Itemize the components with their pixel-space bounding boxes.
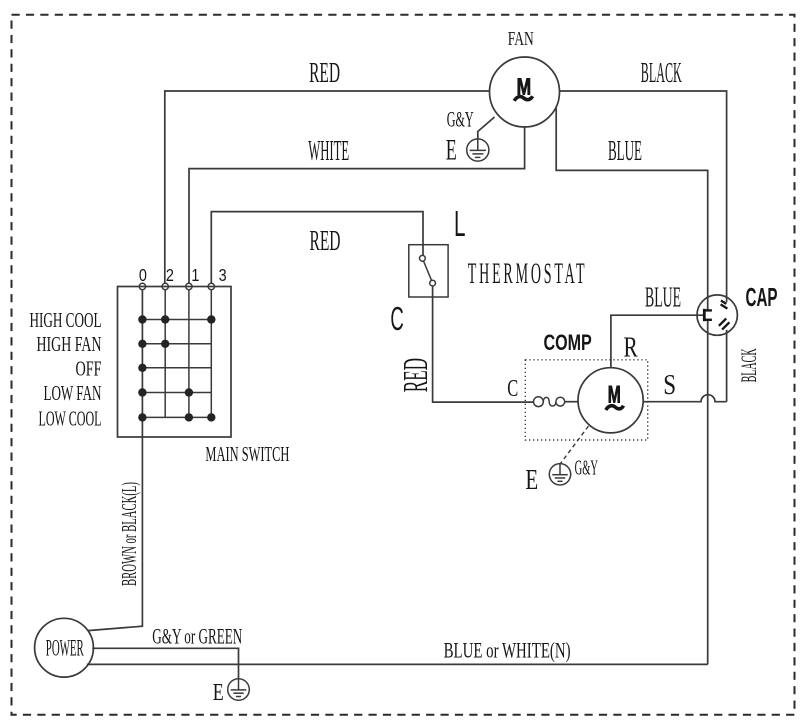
compressor motor circle — [578, 368, 643, 433]
svg-text:S: S — [663, 370, 676, 401]
switch row HIGH FAN — [142, 343, 211, 345]
svg-text:RED: RED — [309, 57, 340, 89]
main switch box — [118, 287, 232, 438]
svg-text:WHITE: WHITE — [308, 135, 349, 167]
switch row LOW FAN — [142, 392, 211, 394]
overload protector — [534, 397, 565, 407]
capacitor common plate — [703, 309, 712, 321]
wire overload to compressor — [565, 401, 578, 403]
svg-text:BLUE: BLUE — [645, 282, 681, 314]
svg-text:HIGH FAN: HIGH FAN — [37, 332, 102, 356]
svg-text:CAP: CAP — [746, 282, 778, 312]
svg-text:1: 1 — [191, 265, 199, 285]
svg-text:POWER: POWER — [46, 636, 84, 661]
thermostat blade — [424, 261, 432, 280]
svg-text:RED: RED — [310, 225, 341, 257]
wire WHITE: switch terminal 1 to fan — [189, 127, 525, 283]
ground (fan earth) — [467, 139, 489, 161]
switch row LOW COOL — [142, 416, 211, 418]
svg-text:BLACK: BLACK — [641, 57, 682, 89]
svg-text:HIGH COOL: HIGH COOL — [30, 308, 102, 332]
wire BLUE or WHITE(N) neutral — [87, 663, 708, 665]
ground (compressor earth) — [549, 464, 570, 485]
svg-text:E: E — [213, 680, 224, 706]
wire RED: switch terminal 2 to fan — [165, 91, 490, 283]
compressor tilde — [606, 406, 624, 410]
svg-text:BROWN or BLACK(L): BROWN or BLACK(L) — [117, 482, 141, 586]
wire BLUE: fan to capacitor common — [556, 108, 708, 310]
svg-text:L: L — [454, 203, 466, 244]
switch terminal 1 — [186, 283, 192, 289]
fan motor tilde — [514, 96, 532, 101]
wire BLACK: fan to capacitor — [560, 91, 727, 302]
thermostat box — [409, 245, 448, 297]
svg-text:COMP: COMP — [543, 330, 591, 355]
svg-text:BLACK: BLACK — [736, 348, 761, 382]
svg-text:E: E — [446, 134, 457, 167]
wire compressor earth (dashed) — [561, 426, 589, 464]
svg-text:LOW COOL: LOW COOL — [39, 407, 102, 431]
wire RED: thermostat to compressor C — [433, 286, 534, 402]
svg-text:0: 0 — [139, 265, 147, 285]
ground (power earth) — [228, 679, 250, 701]
switch terminal 0 — [139, 283, 145, 289]
capacitor plates (S terminal) — [719, 319, 730, 330]
thermostat contact L — [420, 255, 426, 261]
switch row OFF — [142, 367, 211, 369]
wire N: capacitor to neutral — [707, 320, 709, 664]
thermostat contact C — [430, 280, 436, 286]
switch column 2 — [164, 290, 166, 418]
svg-text:C: C — [390, 300, 403, 337]
svg-text:LOW FAN: LOW FAN — [44, 381, 102, 405]
switch column 0 wire to POWER — [88, 290, 143, 631]
switch terminal 3 — [208, 283, 214, 289]
svg-text:E: E — [525, 465, 538, 496]
svg-text:FAN: FAN — [508, 28, 534, 50]
switch column 3 — [210, 290, 212, 418]
svg-text:3: 3 — [219, 265, 227, 285]
svg-text:2: 2 — [166, 265, 174, 285]
wire capacitor to S — [726, 330, 728, 402]
svg-text:THERMOSTAT: THERMOSTAT — [468, 257, 588, 290]
svg-text:RED: RED — [396, 358, 435, 392]
compressor dotted box — [525, 360, 647, 440]
wire G&Y or GREEN to earth — [92, 648, 238, 678]
fan motor circle — [490, 57, 560, 127]
capacitor plates (black terminal) — [721, 301, 728, 309]
switch contact dots — [138, 315, 215, 421]
svg-text:BLUE: BLUE — [608, 135, 642, 167]
svg-text:MAIN SWITCH: MAIN SWITCH — [205, 442, 289, 466]
svg-text:C: C — [507, 376, 518, 402]
svg-text:G&Y: G&Y — [575, 456, 598, 480]
svg-text:R: R — [624, 332, 639, 364]
wire fan earth lead — [478, 117, 495, 139]
svg-text:G&Y: G&Y — [447, 107, 474, 132]
wire S: compressor to capacitor with hop — [643, 395, 726, 402]
capacitor circle CAP — [697, 295, 737, 335]
svg-text:G&Y or GREEN: G&Y or GREEN — [152, 624, 242, 649]
switch terminal 2 — [162, 283, 168, 289]
svg-text:OFF: OFF — [76, 357, 102, 381]
switch row HIGH COOL — [142, 319, 211, 321]
svg-text:BLUE or WHITE(N): BLUE or WHITE(N) — [444, 638, 571, 663]
wire R: compressor to capacitor — [611, 315, 703, 368]
wire RED: switch terminal 3 to thermostat — [211, 212, 423, 284]
POWER circle — [35, 618, 94, 677]
switch column 1 — [188, 290, 190, 418]
